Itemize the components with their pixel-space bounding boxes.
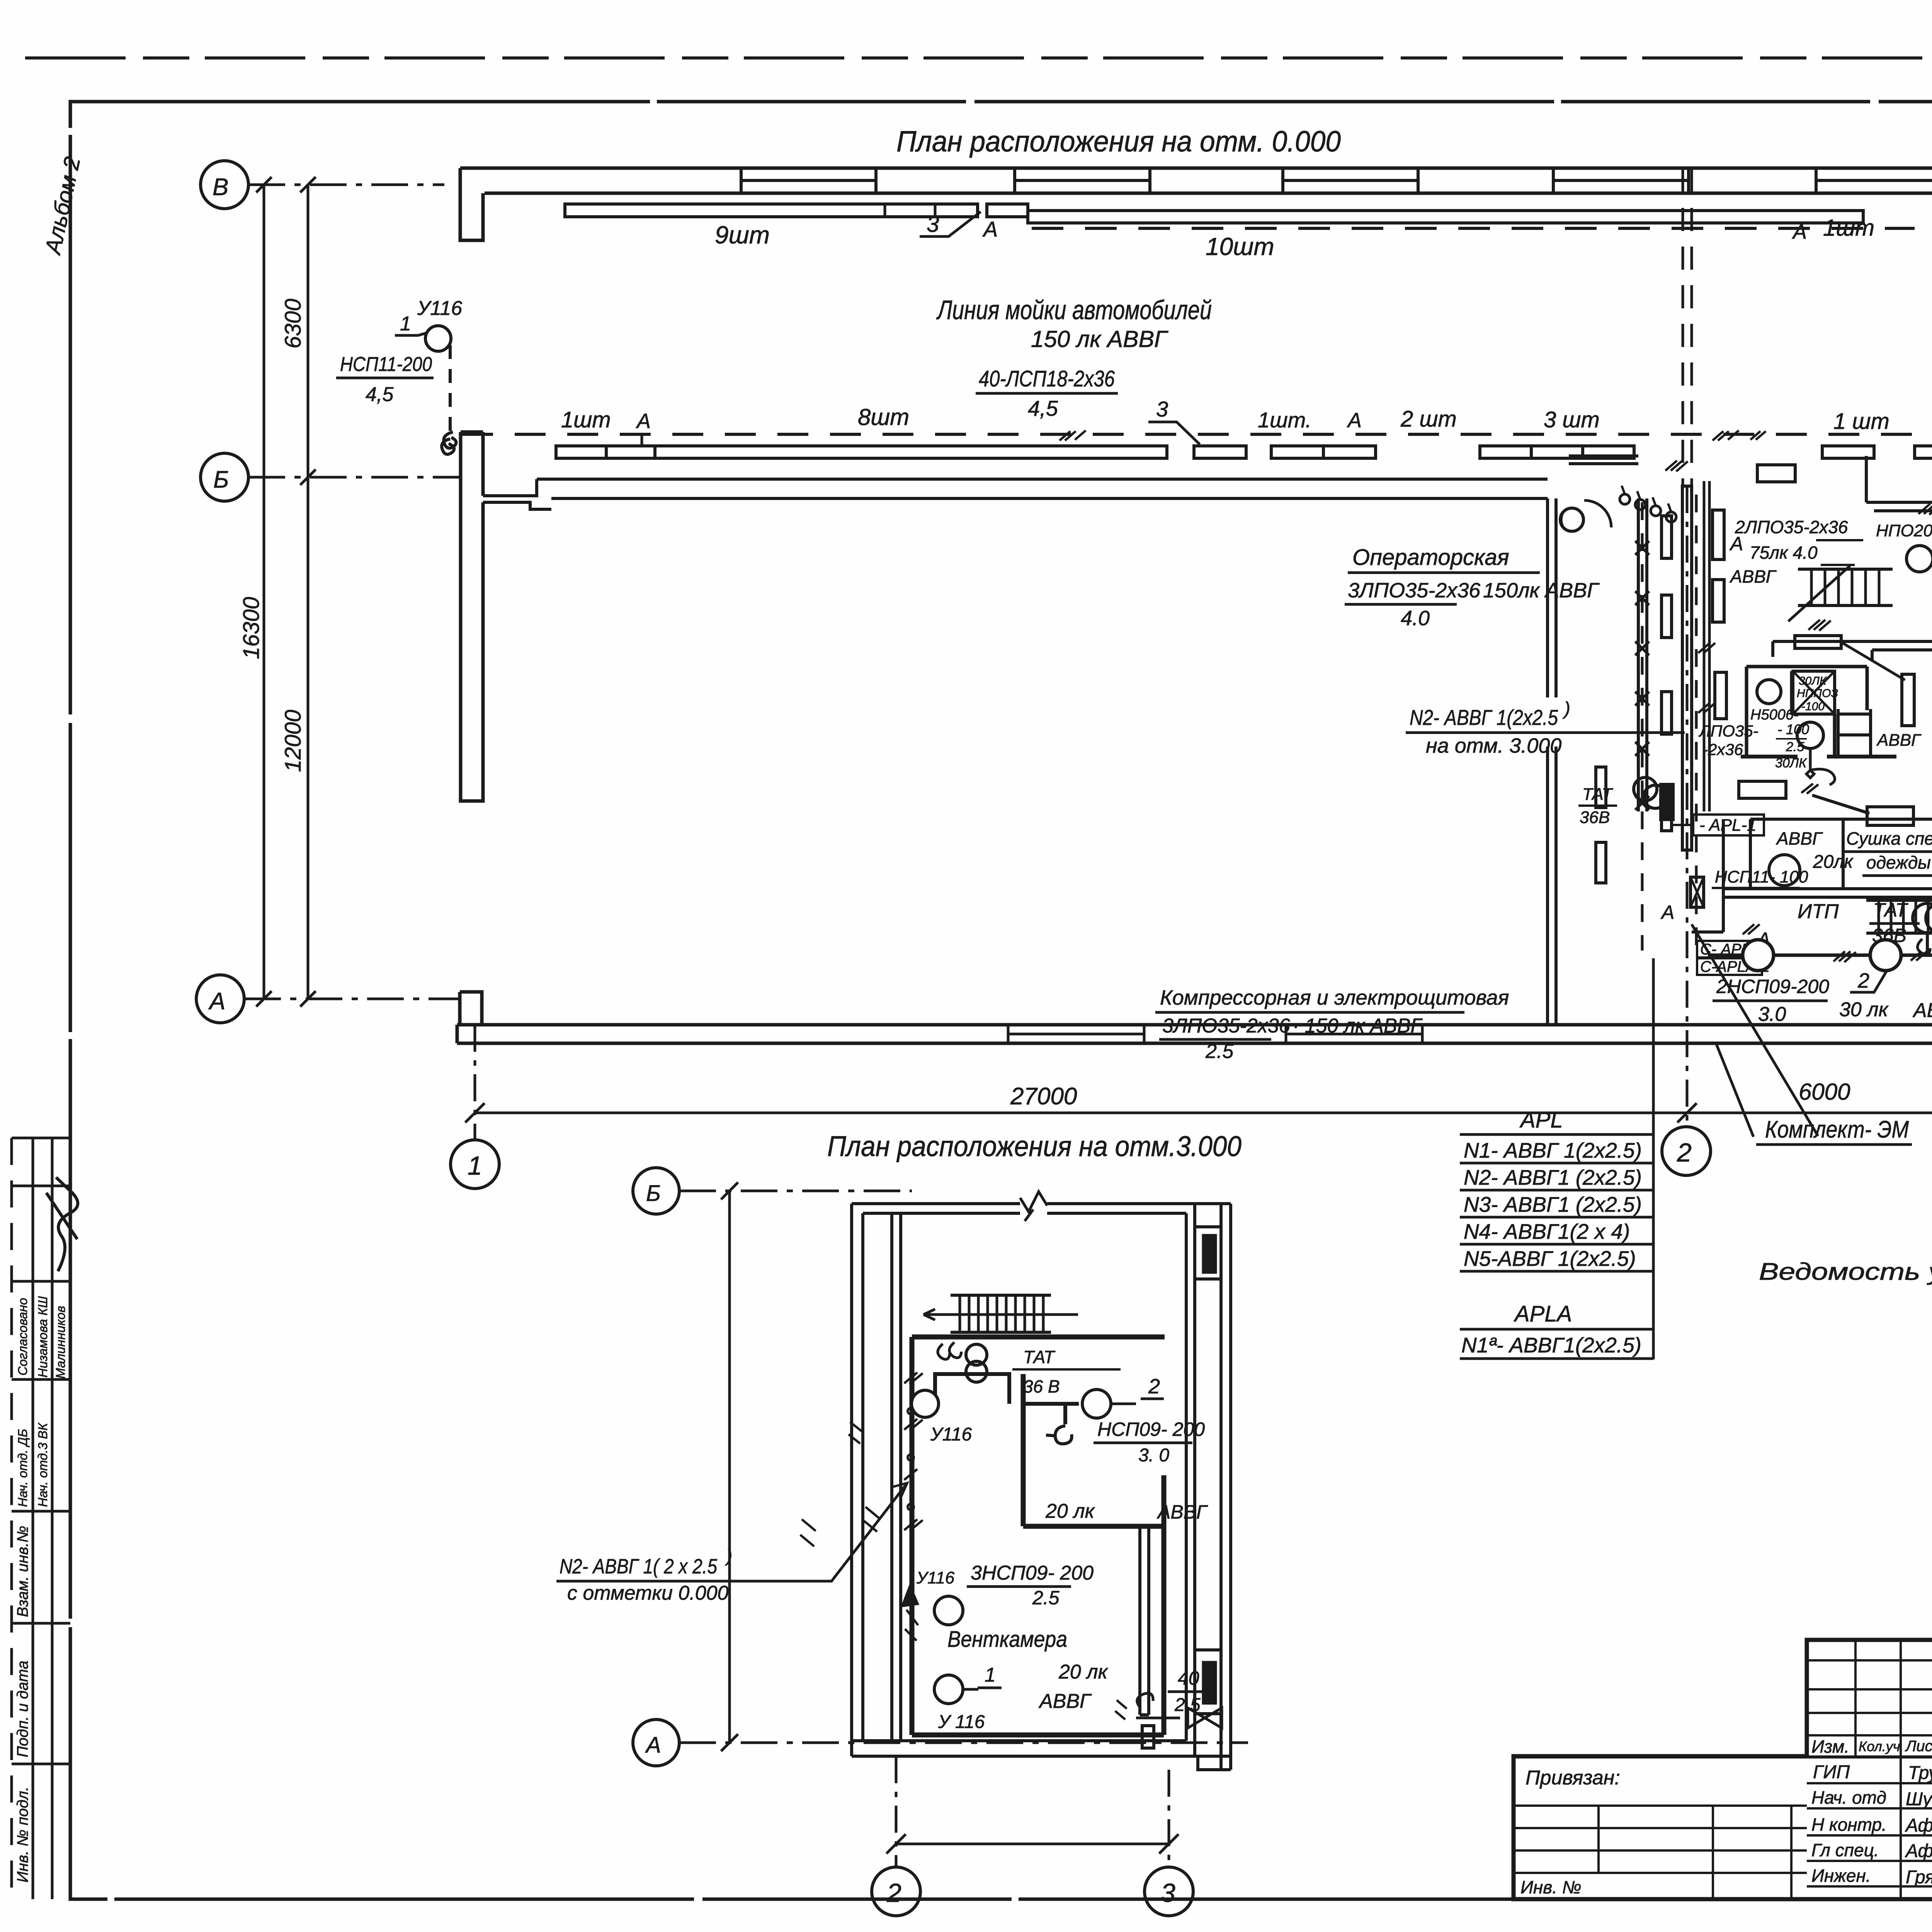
svg-text:3. 0: 3. 0 [1138,1445,1169,1466]
luminaire NPO20-100 [1906,546,1932,572]
revision grid horizontals [1807,1660,1932,1735]
svg-text:Ведомость узлов установки на: Ведомость узлов установки на плане распо… [1759,1259,1932,1285]
dimension chain outer 16300 [263,185,265,999]
svg-text:ИТП: ИТП [1798,900,1839,923]
svg-text:А: А [208,988,225,1015]
svg-text:АВВГ: АВВГ [1156,1501,1208,1523]
svg-text:НППОЗ: НППОЗ [1797,687,1838,700]
svg-text:8шт: 8шт [858,404,909,430]
operator room lamp [1560,508,1583,531]
svg-text:N2- АВВГ1 (2х2.5): N2- АВВГ1 (2х2.5) [1464,1165,1642,1189]
feeder left hook [442,439,454,454]
axis circle 3 lower [1145,1867,1193,1916]
landing wall below stairs [1773,641,1932,662]
axis line A lower [679,1742,1248,1744]
svg-text:APLA: APLA [1514,1301,1572,1327]
axis line B [248,476,460,479]
svg-text:А: А [1792,220,1807,243]
dimension vertical lower [728,1191,731,1743]
svg-text:АВВГ: АВВГ [1912,999,1932,1022]
top-left pier [460,168,483,240]
svg-text:Компрессорная и электрощитовая: Компрессорная и электрощитовая [1160,986,1509,1009]
hatch marks walls [1665,461,1688,471]
luminaire 20lk [1769,855,1800,886]
svg-text:Нач. отд.3 ВК: Нач. отд.3 ВК [36,1422,50,1507]
svg-text:Грязнова: Грязнова [1906,1867,1932,1888]
svg-text:Кол.уч: Кол.уч [1859,1738,1900,1754]
svg-text:2ЛПО35-2х36: 2ЛПО35-2х36 [1735,517,1848,537]
small circles on cable [908,1408,914,1414]
hatch band lower right [1866,900,1932,933]
svg-text:Операторская: Операторская [1352,545,1509,570]
svg-text:Инжен.: Инжен. [1811,1866,1871,1886]
C-APL boxes [1697,941,1762,975]
svg-text:4,5: 4,5 [1028,396,1058,420]
axis circle 2 lower [872,1867,920,1916]
axis2 riser dash-dot long [1686,486,1689,1127]
hall lamp row rects [556,446,606,458]
door arc operator room [1584,500,1611,527]
svg-text:Подп. и дата: Подп. и дата [14,1661,31,1757]
svg-text:одежды: одежды [1866,852,1931,872]
heavy wire lower plan [935,1374,1065,1424]
svg-text:Изм.: Изм. [1811,1736,1849,1757]
duct double line lower [1140,1526,1149,1715]
ITP wire and lamps [1708,954,1932,957]
svg-text:27000: 27000 [1010,1083,1077,1110]
hatch marks on ITP wire [1833,951,1856,962]
valve symbol [1188,1708,1222,1728]
lower building left wall [852,1204,863,1756]
wire dashed 10sht row [1032,227,1915,230]
cable list table right border [1652,958,1655,1359]
svg-text:16300: 16300 [239,597,264,659]
svg-text:30 лк: 30 лк [1839,998,1889,1021]
svg-text:APL: APL [1519,1107,1563,1133]
svg-text:20 лк: 20 лк [1045,1500,1095,1522]
svg-text:План расположения на отм.3.00: План расположения на отм.3.000 [827,1130,1242,1162]
svg-text:3 шт: 3 шт [1544,407,1600,432]
left wall step to hall wall [483,479,551,509]
lamp row small segment [987,204,1028,217]
top wall window mid-lines [741,179,1932,182]
dim line lower between 2-3 [896,1843,1169,1845]
svg-text:1шт: 1шт [561,407,611,432]
axis circle A [196,975,244,1023]
room top right partition [1866,456,1932,511]
break marks on corridor wall [849,1422,879,1532]
svg-text:У116: У116 [417,297,462,320]
header row line [1514,1755,1932,1759]
tick A to row [641,434,643,446]
cable drop dashed lower [910,1349,912,1600]
svg-text:Н контр.: Н контр. [1811,1815,1887,1835]
svg-text:Инв. №: Инв. № [1520,1877,1582,1897]
svg-text:N1ª- АВВГ1(2х2.5): N1ª- АВВГ1(2х2.5) [1461,1333,1641,1357]
lower building right wall [1186,1204,1231,1770]
transformer TAT ITP [1913,903,1932,933]
axis circle B [201,453,248,501]
left stamp strip horizontals [12,1138,70,1764]
dimension ticks upper [256,177,316,1007]
svg-text:N1- АВВГ 1(2х2.5): N1- АВВГ 1(2х2.5) [1464,1138,1642,1162]
hall top interior wall line2 [551,497,1548,500]
svg-text:4,5: 4,5 [366,383,394,406]
bottom wall window midlines [1008,1033,1422,1036]
transformer TAT left [1634,777,1657,801]
axis circle 2 [1662,1127,1711,1175]
break symbol top [1020,1192,1047,1221]
svg-text:Линия мойки автомобилей: Линия мойки автомобилей [936,295,1212,325]
axis line A [244,998,460,1000]
svg-text:30ЛК: 30ЛК [1799,675,1827,687]
svg-text:У 116: У 116 [938,1712,985,1732]
ITP walls [1692,889,1932,932]
svg-text:4.0: 4.0 [1401,607,1430,630]
lamp L1 lower [912,1390,939,1417]
svg-text:на отм. 3.000: на отм. 3.000 [1426,734,1561,757]
svg-text:Малинников: Малинников [53,1306,68,1379]
svg-text:Трушин: Трушин [1908,1763,1932,1783]
svg-text:150лк АВВГ: 150лк АВВГ [1483,579,1600,602]
dashed riser axis2 upper [1682,169,1684,486]
upper small room walls [1023,1374,1165,1526]
dimension line bottom [475,1112,1932,1114]
svg-text:Афонина: Афонина [1905,1815,1932,1836]
svg-text:Комплект- ЭМ: Комплект- ЭМ [1765,1116,1909,1143]
svg-text:2: 2 [1677,1138,1692,1167]
fixture rects on corridor [1713,510,1724,560]
svg-text:· 150 лк АВВГ: · 150 лк АВВГ [1293,1015,1423,1037]
svg-text:N5-АВВГ 1(2х2.5): N5-АВВГ 1(2х2.5) [1464,1247,1636,1270]
right wall pilasters lower [1195,1227,1221,1279]
axis circle V [201,161,248,209]
axis line V [248,184,444,186]
corridor right thick wall bar [1682,486,1692,850]
komplekt-EM leaders [1716,1043,1753,1137]
svg-text:10шт: 10шт [1206,233,1274,260]
top wall window ticks [741,168,1816,193]
switch D lower [1046,1426,1072,1444]
stairs lower plan [951,1295,1051,1332]
svg-text:ТАТ: ТАТ [1023,1347,1056,1367]
dashed cable right of bar [1695,495,1698,951]
svg-text:Афонина: Афонина [1905,1841,1932,1861]
WC crossed box [1793,671,1835,714]
axis 2 lower dash [895,1756,898,1867]
svg-text:N4- АВВГ1(2 х 4): N4- АВВГ1(2 х 4) [1464,1219,1630,1243]
svg-text:1: 1 [400,313,411,335]
bottom-left pier [460,992,482,1025]
revision grid verticals [1855,1640,1932,1899]
svg-text:- APL-1: - APL-1 [1699,816,1757,835]
transformer lower plan [966,1344,987,1365]
svg-text:Привязан:: Привязан: [1526,1767,1620,1789]
top band over rooms [1569,456,1638,464]
wardrobe/drying partition wall [1750,818,1932,821]
WC room walls [1747,667,1867,757]
svg-text:АВВГ: АВВГ [1038,1690,1092,1713]
svg-text:-100: -100 [1801,700,1825,713]
ventkamera thick walls [912,1337,1164,1735]
svg-text:N3- АВВГ1 (2х2.5): N3- АВВГ1 (2х2.5) [1464,1192,1642,1216]
svg-text:9шт: 9шт [715,221,770,249]
svg-text:А: А [1660,901,1674,923]
svg-text:Низамова КШ: Низамова КШ [36,1296,50,1378]
svg-text:20 лк: 20 лк [1058,1661,1109,1683]
svg-text:А: А [645,1733,661,1758]
svg-text:2 шт: 2 шт [1400,406,1457,432]
left table rows [1514,1806,1807,1873]
hatch marks on feeder [1060,430,1086,440]
svg-text:6000: 6000 [1799,1079,1850,1105]
svg-text:40-ЛСП18-2х36: 40-ЛСП18-2х36 [979,366,1115,391]
svg-text:1шт.: 1шт. [1258,408,1311,432]
svg-text:В: В [213,174,228,201]
svg-text:Венткамера: Венткамера [947,1627,1067,1652]
sheet outer dashed border top [25,56,1932,60]
svg-text:ГИП: ГИП [1813,1762,1850,1782]
svg-text:НСП11- 100: НСП11- 100 [1715,867,1808,886]
left exterior wall pier big [461,432,483,801]
svg-text:1: 1 [985,1664,996,1686]
svg-text:А: А [1729,533,1743,554]
lamp L4 lower [934,1675,963,1704]
svg-text:НПО20- 100: НПО20- 100 [1876,521,1932,540]
hall top interior wall line1 [537,478,1548,481]
svg-text:3ЛПО35-2х36: 3ЛПО35-2х36 [1162,1015,1290,1037]
APL-1 leader box [1693,815,1764,835]
svg-text:Б: Б [646,1181,661,1206]
main hall feeder dashed wire [462,433,1932,436]
wardrobe bench mid [1795,636,1841,648]
svg-text:12000: 12000 [281,710,306,772]
axis circle B lower [633,1168,679,1214]
left table verticals [1599,1806,1791,1899]
svg-text:1 шт: 1 шт [1833,409,1889,434]
operator room left wall (double, with door gap) [1548,498,1556,1025]
axis circle 1 [451,1140,499,1189]
svg-text:АВВГ: АВВГ [1776,828,1823,849]
svg-text:3.0: 3.0 [1758,1003,1786,1026]
svg-text:НСП11-200: НСП11-200 [340,353,432,376]
svg-text:А: А [636,410,651,433]
lamp L3 lower [934,1596,963,1625]
svg-text:2: 2 [886,1878,901,1908]
lower building bottom wall [852,1741,1231,1770]
svg-text:N2- АВВГ 1(2х2.5: N2- АВВГ 1(2х2.5 [1410,705,1558,730]
svg-text:Сушка спец.: Сушка спец. [1846,828,1932,849]
svg-text:3: 3 [1156,397,1168,421]
svg-text:2.5: 2.5 [1205,1040,1234,1063]
wardrobe right fixture [1902,674,1914,726]
svg-text:ТАТ: ТАТ [1873,899,1908,921]
U116 left drop wire [449,345,452,432]
corridor right thin wall [1704,481,1709,811]
svg-text:40: 40 [1178,1667,1199,1689]
title block outline [1514,1640,1932,1899]
svg-text:2: 2 [1857,969,1869,992]
switch hook near transformer [938,1342,961,1359]
svg-text:Взам. инв.№: Взам. инв.№ [14,1526,31,1617]
lamp L2 lower [1082,1389,1111,1418]
svg-text:-2х36: -2х36 [1702,740,1743,759]
svg-text:Инв. № подл.: Инв. № подл. [14,1787,31,1883]
svg-text:20лк: 20лк [1813,852,1854,872]
svg-text:Нач. отд: Нач. отд [1811,1787,1886,1808]
svg-text:36 В: 36 В [1023,1376,1060,1396]
bench lamp rects [1739,781,1786,798]
left room small fixtures [1596,767,1606,808]
svg-text:Шунский: Шунский [1906,1789,1932,1810]
N2 leader lower [714,1483,907,1581]
corridor wall double [1638,498,1647,811]
axis1 dash-dot bottom [474,1025,476,1140]
switch cluster top [1620,494,1630,504]
axis line B lower [679,1190,912,1192]
svg-text:ТАТ: ТАТ [1582,785,1613,804]
svg-text:3ЛПО35-2х36: 3ЛПО35-2х36 [1348,579,1481,602]
svg-text:2.5: 2.5 [1032,1587,1060,1609]
svg-text:с отметки 0.000: с отметки 0.000 [567,1582,729,1604]
svg-text:Согласовано: Согласовано [15,1298,30,1376]
svg-text:2: 2 [1148,1375,1160,1398]
corridor dashed cable with crosses [1641,502,1644,951]
corridor wall lower plan [892,1213,901,1741]
junction black box [1660,784,1674,820]
stamp signature scribble [46,1177,78,1271]
shelf ladder [1838,709,1871,755]
svg-text:3НСП09- 200: 3НСП09- 200 [971,1562,1094,1584]
svg-text:План расположения на отм. 0: План расположения на отм. 0.000 [896,125,1341,158]
dimension chain inner 6300/12000 [307,185,310,999]
svg-text:Лист: Лист [1905,1738,1932,1755]
svg-text:НСП09- 200: НСП09- 200 [1097,1418,1205,1440]
svg-text:6300: 6300 [281,299,306,349]
luminaire N5006 [1757,680,1781,704]
svg-text:ЛПО35-: ЛПО35- [1698,722,1759,740]
svg-text:Гл спец.: Гл спец. [1811,1840,1879,1860]
building top wall inner line [485,192,1932,195]
axis 3 lower dash [1168,1770,1170,1867]
stairs upper [1798,569,1893,605]
signature rows [1807,1783,1932,1886]
svg-text:36В: 36В [1580,808,1610,827]
luminaire center big [1797,722,1823,748]
svg-text:Н5006-: Н5006- [1750,707,1799,723]
svg-text:1шт: 1шт [1823,215,1874,241]
luminaire U116 left [425,326,451,351]
lamp row 9sht [565,204,978,217]
svg-text:Б: Б [213,466,229,493]
svg-text:N2- АВВГ 1( 2 х 2.5: N2- АВВГ 1( 2 х 2.5 [560,1555,718,1578]
dimension ticks bottom [465,1103,1932,1122]
left stamp strip verticals [10,1138,13,1899]
lamp row 10sht [1028,211,1863,223]
svg-text:Нач. отд. ДБ: Нач. отд. ДБ [15,1429,30,1507]
svg-text:А: А [982,217,998,241]
lower room walls [1750,819,1843,889]
building top wall outer line [460,167,1932,170]
svg-text:АВВГ: АВВГ [1876,731,1922,750]
svg-text:75лк 4.0: 75лк 4.0 [1750,543,1818,563]
svg-text:3: 3 [927,212,939,237]
junction box top [1757,465,1795,482]
small box bottom duct [1142,1726,1154,1748]
axis circle A lower [633,1719,679,1766]
svg-text:30ЛК: 30ЛК [1775,756,1807,770]
hall bottom wall [457,1025,1932,1043]
switch at transformer [1917,935,1932,954]
svg-text:А: А [1347,409,1362,432]
lower building top wall [852,1204,1231,1213]
svg-text:3: 3 [1161,1878,1175,1908]
svg-text:АВВГ: АВВГ [1729,566,1777,587]
svg-text:150 лк АВВГ: 150 лк АВВГ [1031,326,1168,352]
svg-text:У116: У116 [930,1424,972,1445]
svg-text:1: 1 [468,1151,482,1180]
svg-text:У116: У116 [916,1568,955,1587]
